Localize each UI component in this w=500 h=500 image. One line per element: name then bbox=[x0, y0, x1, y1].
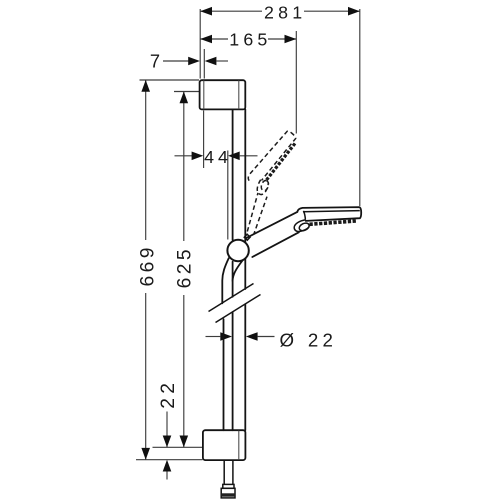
svg-text:625: 625 bbox=[175, 246, 196, 288]
svg-text:165: 165 bbox=[229, 30, 271, 50]
svg-text:669: 669 bbox=[138, 244, 159, 286]
svg-text:44: 44 bbox=[204, 147, 232, 167]
svg-text:Ø 22: Ø 22 bbox=[280, 330, 338, 351]
svg-text:7: 7 bbox=[150, 51, 160, 72]
svg-text:22: 22 bbox=[158, 379, 179, 409]
svg-text:281: 281 bbox=[264, 3, 306, 23]
